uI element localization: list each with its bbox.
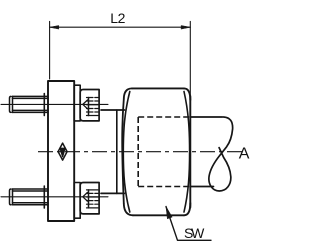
svg-text:A: A [239,146,250,163]
hex bottom-left corner arc [124,204,133,216]
tube break loop [209,117,233,191]
body neck top edge [101,109,125,111]
dimension arrow left [50,26,59,29]
svg-text:SW: SW [184,225,205,241]
thread ticks bottom block [87,190,99,208]
tube top line [190,116,222,118]
hex left edge [122,99,124,204]
hex left face boundary arc [123,92,130,213]
screw bottom axis [1,196,108,198]
screw bottom shank [13,189,49,205]
stud block bottom [80,183,99,214]
hex right face boundary arc [184,92,190,213]
screw top end [10,96,13,112]
dimension L2 extension line left [49,21,51,79]
SW leader line [166,207,211,241]
thread ticks top block [87,98,99,116]
seal cone symbol diamond [58,143,67,160]
hex bottom-right corner arc [184,203,190,215]
dimension L2 extension line right [189,21,191,96]
screw bottom end [10,189,13,205]
screw bottom tip face [88,190,90,208]
screw top tip chevron [83,100,88,109]
hex nut top edge [132,87,184,89]
hidden bore bottom dashed [138,186,190,188]
screw top tip face [88,98,90,116]
screw bottom tip chevron [83,192,88,201]
screw top washer [43,94,45,116]
seal cone inner fill [60,148,65,157]
screw bottom washer [43,186,45,208]
flange plate [48,81,74,221]
spacer plate top [74,85,80,121]
body neck end face [116,110,118,193]
dimension L2 line [50,26,191,28]
hidden bore top dashed [138,116,190,118]
hex top-left corner arc [124,88,132,99]
main centerline [38,151,246,153]
screw top axis [1,103,108,105]
hex right edge [189,96,191,208]
tube bottom line [190,186,213,188]
screw top shank [13,96,49,112]
spacer plate bottom [74,183,80,219]
body neck bottom edge [101,192,125,194]
hidden bore end dashed [137,117,139,187]
stud block top [80,90,99,121]
hex top-right corner arc [184,88,190,100]
svg-text:L2: L2 [110,10,125,26]
SW leader arrowhead [166,207,172,219]
hex nut bottom edge [133,214,184,216]
dimension arrow right [181,26,190,29]
